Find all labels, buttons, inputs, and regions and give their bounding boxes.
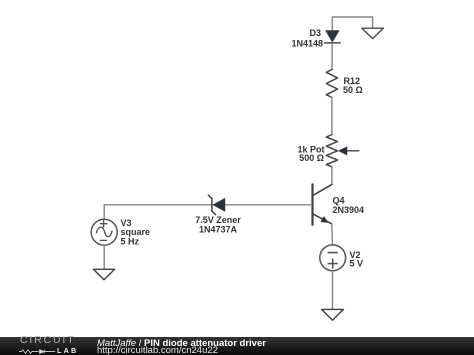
svg-text:D3: D3 bbox=[309, 28, 321, 38]
wire: V3 to ground bbox=[103, 245, 105, 269]
zener diode 7.5V 1N4737A bbox=[208, 195, 225, 215]
diode D3 bbox=[325, 31, 341, 43]
wire: Q4 emitter to V2 bbox=[331, 224, 334, 245]
voltage source V3 bbox=[91, 219, 117, 245]
potentiometer wiper arrow bbox=[339, 147, 359, 155]
footer title bbox=[97, 339, 266, 349]
transistor Q4 bbox=[313, 184, 332, 225]
potentiometer 1k Pot body bbox=[326, 135, 337, 167]
footer url bbox=[97, 346, 218, 355]
wire: zener to Q4 base bbox=[213, 204, 311, 206]
ground (top right) bbox=[362, 28, 383, 38]
svg-text:1N4737A: 1N4737A bbox=[199, 224, 238, 234]
svg-text:5 V: 5 V bbox=[350, 258, 364, 268]
wire: pot to Q4 collector bbox=[331, 167, 333, 185]
svg-text:Q4: Q4 bbox=[333, 195, 345, 205]
wire: V2 to ground bbox=[332, 271, 334, 309]
wire: D3 anode to top-right ground bbox=[332, 17, 372, 31]
svg-text:1N4148: 1N4148 bbox=[291, 38, 323, 48]
svg-text:square: square bbox=[121, 227, 151, 237]
voltage source V2 bbox=[320, 245, 346, 271]
wire: D3 cathode to R12 bbox=[331, 44, 333, 70]
resistor R12 bbox=[326, 70, 337, 98]
footer bar bbox=[0, 337, 474, 355]
wire: V3 to zener anode (base net left) bbox=[104, 205, 212, 220]
ground (below V2) bbox=[322, 309, 344, 320]
CircuitLab logo: CIRCUIT bbox=[20, 336, 75, 346]
wire: R12 to pot bbox=[331, 98, 333, 135]
ground (below V3) bbox=[93, 269, 114, 280]
CircuitLab logo squiggle (resistor + diode) bbox=[19, 349, 55, 355]
svg-text:5 Hz: 5 Hz bbox=[121, 236, 140, 246]
svg-text:50 Ω: 50 Ω bbox=[343, 85, 363, 95]
svg-text:500 Ω: 500 Ω bbox=[299, 153, 324, 163]
svg-text:2N3904: 2N3904 bbox=[333, 205, 365, 215]
CircuitLab logo: LAB bbox=[57, 347, 78, 354]
